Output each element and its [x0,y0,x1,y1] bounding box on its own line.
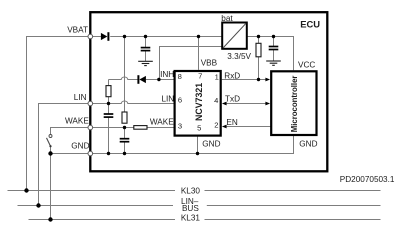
svg-text:LIN: LIN [74,93,87,102]
svg-text:WAKE: WAKE [150,118,174,127]
svg-text:KL31: KL31 [181,213,201,222]
svg-text:2: 2 [214,120,218,129]
svg-text:PD20070503.1: PD20070503.1 [340,175,395,184]
svg-text:3: 3 [178,121,182,130]
svg-text:1: 1 [215,72,219,81]
svg-text:3.3/5V: 3.3/5V [227,52,251,61]
svg-text:GND: GND [71,141,89,150]
svg-text:RxD: RxD [224,71,240,80]
svg-text:7: 7 [198,72,202,81]
svg-text:BUS: BUS [182,204,199,213]
svg-text:6: 6 [178,96,182,105]
svg-text:GND: GND [299,140,317,149]
svg-text:VBB: VBB [201,59,218,68]
svg-text:NCV7321: NCV7321 [194,83,204,121]
svg-text:INH: INH [160,70,174,79]
svg-text:VCC: VCC [298,60,315,69]
svg-text:Microcontroller: Microcontroller [290,76,299,133]
svg-text:8: 8 [178,72,182,81]
svg-text:VBAT: VBAT [67,25,88,34]
svg-text:EN: EN [226,118,237,127]
svg-text:GND: GND [202,140,220,149]
svg-text:ECU: ECU [300,18,320,29]
svg-text:TxD: TxD [225,94,240,103]
svg-text:KL30: KL30 [181,187,201,196]
svg-text:bat: bat [221,14,233,23]
svg-text:WAKE: WAKE [65,117,89,126]
svg-text:5: 5 [197,123,201,132]
svg-text:4: 4 [214,96,218,105]
svg-text:LIN: LIN [161,94,174,103]
